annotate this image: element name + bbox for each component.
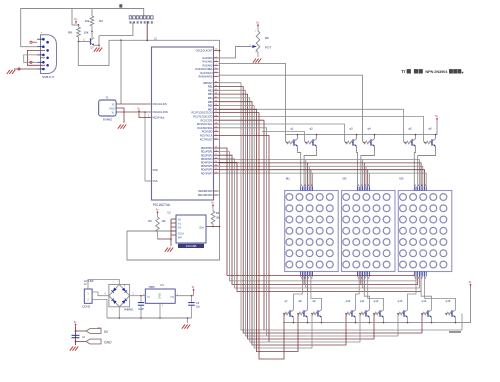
wire xyxy=(431,318,433,323)
svg-text:q3: q3 xyxy=(349,127,353,131)
ground xyxy=(258,59,261,63)
svg-text:q14: q14 xyxy=(422,299,427,303)
led-matrix M3 leds xyxy=(400,194,447,268)
svg-text:Q?: Q? xyxy=(90,46,94,50)
wire RB feed to base xyxy=(219,90,399,336)
svg-text:q5: q5 xyxy=(408,127,412,131)
wire xyxy=(414,146,415,186)
wire tap xyxy=(368,173,370,186)
wire tap xyxy=(310,170,312,187)
svg-text:RA4/T0CKI: RA4/T0CKI xyxy=(200,72,212,75)
wire xyxy=(408,277,417,310)
wire xyxy=(109,40,220,260)
wire loop xyxy=(78,40,109,65)
led-matrix M3 top pin numbers xyxy=(415,185,426,186)
wire xyxy=(91,32,93,39)
wire RC0 feed to base xyxy=(219,113,285,359)
wire xyxy=(21,9,144,47)
svg-text:Y1: Y1 xyxy=(105,96,109,100)
wire xyxy=(118,307,120,318)
svg-text:M1: M1 xyxy=(286,177,290,181)
wire xyxy=(72,24,79,26)
led-matrix M3 top pins xyxy=(414,187,426,191)
wire RD feed to bottom pins xyxy=(219,155,418,284)
wire xyxy=(214,50,220,52)
svg-text:RC7/RX/DT: RC7/RX/DT xyxy=(200,138,213,141)
svg-text:q13: q13 xyxy=(398,299,403,303)
svg-text:RC3/SCK/SCL: RC3/SCK/SCL xyxy=(197,123,213,126)
wire RC4 stub staircase xyxy=(219,135,270,342)
wire xyxy=(139,114,152,118)
wire xyxy=(158,238,172,240)
wire xyxy=(206,226,220,228)
wire xyxy=(92,299,107,318)
svg-text:10k: 10k xyxy=(84,31,89,35)
svg-text:RB5: RB5 xyxy=(208,101,213,104)
wire rail to top pins xyxy=(219,166,423,186)
wire rail to top pins xyxy=(219,173,427,186)
pin marker xyxy=(30,61,32,63)
svg-text:RA3/AN3/VREF: RA3/AN3/VREF xyxy=(195,68,213,71)
svg-text:RE0/RD/AN5: RE0/RD/AN5 xyxy=(198,190,213,193)
wire xyxy=(455,318,457,323)
node xyxy=(78,24,80,26)
led-matrix M1 body xyxy=(285,191,339,272)
svg-text:RD6/PSP6: RD6/PSP6 xyxy=(201,169,213,172)
svg-text:VSS: VSS xyxy=(153,180,158,183)
wire tap xyxy=(363,163,365,187)
resistor R2 xyxy=(91,9,93,17)
svg-text:5V: 5V xyxy=(104,330,109,334)
svg-text:RC1/T1OSI/CCP2: RC1/T1OSI/CCP2 xyxy=(193,116,213,119)
svg-text:RC4/SDI/SDA: RC4/SDI/SDA xyxy=(197,127,212,130)
led-matrix M3 bottom pin numbers xyxy=(415,277,426,278)
wire q3 feed xyxy=(219,124,345,142)
IC U1 pins RA0-RA5 xyxy=(214,57,219,59)
led-matrix M1 top pin numbers xyxy=(301,185,312,186)
wire emitter rail xyxy=(283,287,471,323)
wire xyxy=(71,9,73,26)
svg-text:8 MHZ: 8 MHZ xyxy=(103,118,112,122)
power +5V xyxy=(436,118,438,121)
svg-text:CAP: CAP xyxy=(138,307,144,311)
wire xyxy=(355,318,357,323)
svg-text:GND: GND xyxy=(158,293,162,299)
svg-text:SDA: SDA xyxy=(199,227,204,230)
wire xyxy=(357,146,358,186)
svg-text:q9: q9 xyxy=(312,299,316,303)
ground xyxy=(187,325,190,329)
svg-text:-: - xyxy=(111,308,112,312)
svg-text:OSC2/CLKOUT: OSC2/CLKOUT xyxy=(196,50,213,53)
ground xyxy=(170,248,173,252)
resistor R8 xyxy=(77,27,81,37)
wire xyxy=(14,68,37,70)
wire RB feed to base xyxy=(219,94,375,339)
wire xyxy=(361,146,375,186)
wire q5 feed xyxy=(219,109,404,141)
bridge rectifier D1 WBRG xyxy=(109,285,130,307)
wire xyxy=(170,239,172,246)
svg-text:M3: M3 xyxy=(399,177,403,181)
wire tap xyxy=(308,166,310,186)
IC U1 pins RD0-RD7 xyxy=(214,147,219,149)
capacitor C3 xyxy=(72,334,80,336)
wire tap xyxy=(362,160,364,187)
IC U1 left pins xyxy=(147,103,152,105)
wire xyxy=(24,55,37,62)
svg-text:q8: q8 xyxy=(298,299,302,303)
svg-text:U3: U3 xyxy=(160,283,164,287)
svg-text:R6: R6 xyxy=(265,36,269,40)
wire xyxy=(407,318,409,323)
led-matrix M1 leds xyxy=(286,194,333,268)
svg-text:OSC2/CLKON: OSC2/CLKON xyxy=(153,111,169,114)
svg-text:q11: q11 xyxy=(360,299,365,303)
wire xyxy=(88,280,119,290)
wire xyxy=(171,218,176,220)
led-matrix M3 bottom pins xyxy=(414,272,426,277)
wire tap xyxy=(303,277,305,285)
wire tap xyxy=(312,173,314,186)
svg-text:WBRG: WBRG xyxy=(124,308,134,312)
svg-text:WP: WP xyxy=(178,236,182,239)
svg-text:RB6: RB6 xyxy=(208,105,213,108)
wire xyxy=(294,277,303,310)
connector J1 SUB-D 9 shell xyxy=(41,35,57,74)
node xyxy=(91,31,93,33)
svg-text:RB1: RB1 xyxy=(208,86,213,89)
wire xyxy=(425,277,456,310)
pin marker xyxy=(30,41,32,43)
svg-text:RD1/PSP1: RD1/PSP1 xyxy=(201,151,213,154)
wire RB feed to base xyxy=(219,102,347,345)
svg-text:RA2/AN2: RA2/AN2 xyxy=(203,64,214,67)
ground xyxy=(123,125,126,129)
wire q1 feed xyxy=(219,63,286,141)
svg-text:10k: 10k xyxy=(161,219,166,223)
svg-text:VO: VO xyxy=(170,295,174,299)
svg-text:q6: q6 xyxy=(428,127,432,131)
svg-text:q1: q1 xyxy=(290,127,294,131)
svg-text:M2: M2 xyxy=(343,177,347,181)
svg-text:POT: POT xyxy=(265,46,271,50)
wire xyxy=(116,103,151,105)
wire xyxy=(98,36,100,47)
svg-text:q12: q12 xyxy=(374,299,379,303)
wire q2 feed xyxy=(262,132,305,142)
potentiometer R6 xyxy=(257,25,259,28)
wire xyxy=(159,303,161,318)
IC U2 24C16 xyxy=(176,215,206,243)
power +5V xyxy=(470,284,472,287)
wire RD feed to bottom pins xyxy=(219,152,417,281)
svg-text:Tr: Tr xyxy=(401,69,405,74)
svg-text:SCLK: SCLK xyxy=(178,232,185,235)
ground xyxy=(75,347,78,351)
svg-text:RC6/TX/CK: RC6/TX/CK xyxy=(200,135,213,138)
wire q6 feed xyxy=(219,116,424,141)
ground xyxy=(12,70,15,74)
svg-text:VDD: VDD xyxy=(153,169,158,172)
wire RB feed to base xyxy=(219,98,361,342)
pin marker xyxy=(18,68,20,70)
wire xyxy=(120,40,122,104)
ground xyxy=(99,48,102,52)
led-matrix M2 bottom pin numbers xyxy=(358,277,369,278)
power +5V xyxy=(212,205,214,208)
wire rail to top pins xyxy=(219,170,425,187)
svg-text:RD3/PSP3: RD3/PSP3 xyxy=(201,158,213,161)
svg-text:RA1/AN1: RA1/AN1 xyxy=(203,61,214,64)
wire xyxy=(383,318,385,323)
led-matrix M2 top pin numbers xyxy=(358,185,369,186)
svg-text:q4: q4 xyxy=(367,127,371,131)
led-matrix M2 leds xyxy=(343,194,390,268)
wire xyxy=(304,146,316,186)
svg-text:PIC16C74A: PIC16C74A xyxy=(153,203,171,207)
svg-text:CON2: CON2 xyxy=(82,305,91,309)
wire xyxy=(449,331,461,333)
svg-text:R5: R5 xyxy=(148,219,152,223)
wire xyxy=(116,108,124,123)
svg-text:R8: R8 xyxy=(68,31,72,35)
power +5V xyxy=(193,289,195,292)
wire RB feed to base xyxy=(219,109,299,351)
wire xyxy=(187,318,189,323)
svg-text:RA5/AN4/SS: RA5/AN4/SS xyxy=(199,76,213,79)
wire xyxy=(175,295,193,297)
svg-text:RD7/PSP7: RD7/PSP7 xyxy=(201,172,213,175)
wire xyxy=(75,327,77,345)
svg-text:SUB-D 9: SUB-D 9 xyxy=(42,75,54,79)
wire RD feed to bottom pins xyxy=(219,148,415,277)
led-matrix M2 body xyxy=(342,191,396,272)
wire xyxy=(307,277,309,310)
connector J1 pins xyxy=(42,38,45,41)
svg-text:q15: q15 xyxy=(446,299,451,303)
wire xyxy=(116,111,151,113)
power +5V xyxy=(138,111,140,114)
svg-text:q10: q10 xyxy=(346,299,351,303)
capacitor CAP xyxy=(140,296,142,303)
power +5V xyxy=(157,212,159,215)
wire rail to top pins xyxy=(219,160,420,187)
wire tap xyxy=(305,277,307,289)
wire xyxy=(94,44,99,46)
wire xyxy=(364,277,369,310)
wire xyxy=(219,47,252,58)
wire RB feed to base xyxy=(219,87,423,334)
wire xyxy=(421,277,431,310)
svg-text:MCLR/Vpp: MCLR/Vpp xyxy=(153,117,165,120)
svg-text:10k: 10k xyxy=(215,216,220,220)
wire xyxy=(293,318,295,323)
svg-text:RD4/PSP4: RD4/PSP4 xyxy=(201,162,213,165)
svg-text:RB2: RB2 xyxy=(208,89,213,92)
wire tap xyxy=(358,277,360,281)
svg-text:10k: 10k xyxy=(85,19,90,23)
svg-text:RB3: RB3 xyxy=(208,93,213,96)
wire tap xyxy=(301,277,303,281)
IC U1 pins RE0-RE2 xyxy=(214,190,219,192)
svg-text:RC0/T1OSO/T1CKI: RC0/T1OSO/T1CKI xyxy=(192,112,213,115)
svg-text:RB4: RB4 xyxy=(208,97,213,100)
connector JP1 header xyxy=(129,16,132,19)
wire xyxy=(171,230,176,232)
svg-text:RC2/CCP1: RC2/CCP1 xyxy=(201,119,213,122)
wire tap xyxy=(357,276,359,277)
wire xyxy=(92,292,109,296)
svg-text:OSC1/CLKIN: OSC1/CLKIN xyxy=(153,103,167,106)
wire GND rail xyxy=(107,317,192,319)
wire rail to top pins xyxy=(219,163,422,187)
wire xyxy=(356,277,360,310)
wire xyxy=(170,219,172,239)
svg-text:q2: q2 xyxy=(309,127,313,131)
transistor Q17 RS232 level shifter xyxy=(90,38,92,44)
svg-text:NPN 2N3904: NPN 2N3904 xyxy=(425,69,448,74)
svg-text:10u: 10u xyxy=(196,306,201,309)
led-matrix M1 top pins xyxy=(301,187,313,191)
wire xyxy=(27,50,45,65)
wire RB feed to base xyxy=(219,83,463,330)
connector CON2 xyxy=(84,289,92,303)
svg-text:RD0/PSP0: RD0/PSP0 xyxy=(201,147,213,150)
wire tap xyxy=(300,276,302,277)
wire RB feed to base xyxy=(219,106,313,349)
connector +5V tab xyxy=(76,330,87,332)
crystal Y1 8MHZ xyxy=(99,100,116,116)
wire xyxy=(418,146,436,186)
wire xyxy=(311,277,322,310)
resistor R3 xyxy=(212,208,214,212)
svg-text:VI: VI xyxy=(147,295,150,299)
led-matrix M1 bottom pins xyxy=(301,272,313,277)
wire tap xyxy=(307,277,309,292)
wire RD feed to bottom pins xyxy=(219,159,420,288)
wire xyxy=(99,22,133,35)
resistor R5 xyxy=(157,215,159,218)
net label xyxy=(119,4,122,7)
wire RC3 stub staircase xyxy=(219,128,267,336)
svg-text:R2: R2 xyxy=(99,19,103,23)
wire xyxy=(368,277,384,310)
wire q4 feed xyxy=(219,75,363,141)
wire tap xyxy=(363,277,365,292)
led-matrix M2 bottom pins xyxy=(358,272,370,277)
svg-text:RD5/PSP5: RD5/PSP5 xyxy=(201,165,213,168)
svg-text:GND: GND xyxy=(104,341,112,345)
wire RC2 stub staircase xyxy=(219,120,265,330)
wire tap xyxy=(362,277,364,289)
wire xyxy=(307,318,309,323)
svg-text:R3: R3 xyxy=(216,211,220,215)
wire RD feed to bottom pins xyxy=(219,162,422,291)
svg-text:GND: GND xyxy=(109,108,115,111)
connector GND tab xyxy=(76,341,87,343)
power +5V xyxy=(75,324,77,327)
svg-text:+: + xyxy=(124,284,126,288)
svg-text:RA0/AN0: RA0/AN0 xyxy=(203,57,214,60)
wire xyxy=(145,112,152,181)
capacitor C2 xyxy=(191,296,193,303)
wire +5V rail xyxy=(285,121,437,135)
wire tap xyxy=(360,277,362,285)
svg-text:U2: U2 xyxy=(167,211,171,215)
wire tap xyxy=(367,170,369,187)
svg-text:24C16B: 24C16B xyxy=(186,244,197,248)
wire xyxy=(369,318,371,323)
svg-text:RD2/PSP2: RD2/PSP2 xyxy=(201,154,213,157)
svg-text:RE1/WR/AN6: RE1/WR/AN6 xyxy=(198,194,213,197)
wire xyxy=(130,295,146,297)
wire xyxy=(146,21,148,40)
IC U1 pins RB0-RB7 xyxy=(214,82,219,84)
power +5V xyxy=(75,21,77,24)
IC U1 pins RC0-RC7 xyxy=(214,112,219,114)
IC U1 PIC16C74A body xyxy=(152,47,214,200)
svg-text:q7: q7 xyxy=(284,299,288,303)
led-matrix M2 top pins xyxy=(358,187,370,191)
svg-text:RB0/INT: RB0/INT xyxy=(203,82,213,85)
IC U3 7805 xyxy=(145,289,175,303)
wire tap xyxy=(305,160,307,187)
wire tap xyxy=(307,163,309,187)
svg-text:7805: 7805 xyxy=(148,285,155,289)
led-matrix M3 body xyxy=(398,191,452,272)
wire xyxy=(298,146,301,186)
wire xyxy=(321,318,323,323)
wire tap xyxy=(365,166,367,186)
led-matrix M1 bottom pin numbers xyxy=(301,277,312,278)
svg-text:RC5/SDO: RC5/SDO xyxy=(202,131,213,134)
